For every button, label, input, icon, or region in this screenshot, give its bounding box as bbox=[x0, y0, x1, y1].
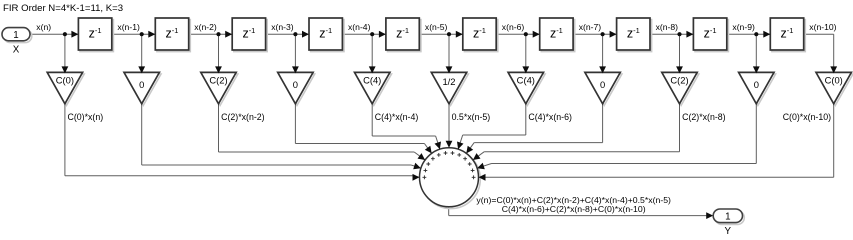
svg-text:C(0)*x(n-10): C(0)*x(n-10) bbox=[783, 112, 831, 122]
svg-text:C(2): C(2) bbox=[670, 75, 688, 86]
svg-text:x(n-4): x(n-4) bbox=[348, 22, 371, 32]
svg-text:x(n-6): x(n-6) bbox=[502, 22, 525, 32]
svg-text:C(4)*x(n-4): C(4)*x(n-4) bbox=[375, 112, 419, 122]
svg-text:1/2: 1/2 bbox=[442, 76, 455, 87]
svg-text:X: X bbox=[13, 45, 20, 56]
svg-text:x(n): x(n) bbox=[36, 22, 51, 32]
svg-text:1: 1 bbox=[725, 212, 730, 223]
svg-text:C(2)*x(n-2): C(2)*x(n-2) bbox=[221, 112, 265, 122]
svg-text:0.5*x(n-5): 0.5*x(n-5) bbox=[452, 112, 491, 122]
svg-text:1: 1 bbox=[13, 30, 18, 41]
svg-text:x(n-1): x(n-1) bbox=[117, 22, 140, 32]
svg-text:x(n-8): x(n-8) bbox=[656, 22, 679, 32]
svg-text:Y: Y bbox=[725, 226, 732, 237]
svg-text:C(4)*x(n-6): C(4)*x(n-6) bbox=[528, 112, 572, 122]
svg-text:C(0): C(0) bbox=[825, 75, 843, 86]
svg-text:x(n-3): x(n-3) bbox=[271, 22, 294, 32]
svg-text:0: 0 bbox=[139, 79, 144, 90]
svg-text:x(n-5): x(n-5) bbox=[425, 22, 448, 32]
svg-text:0: 0 bbox=[600, 79, 605, 90]
svg-text:x(n-7): x(n-7) bbox=[579, 22, 602, 32]
svg-text:C(4): C(4) bbox=[517, 75, 535, 86]
svg-text:FIR Order N=4*K-1=11, K=3: FIR Order N=4*K-1=11, K=3 bbox=[3, 3, 123, 14]
svg-text:C(4)*x(n-6)+C(2)*x(n-8)+C(0)*x: C(4)*x(n-6)+C(2)*x(n-8)+C(0)*x(n-10) bbox=[502, 204, 646, 214]
svg-text:0: 0 bbox=[293, 79, 298, 90]
svg-text:C(2)*x(n-8): C(2)*x(n-8) bbox=[682, 112, 726, 122]
svg-text:x(n-9): x(n-9) bbox=[732, 22, 755, 32]
svg-text:x(n-10): x(n-10) bbox=[809, 22, 836, 32]
svg-text:x(n-2): x(n-2) bbox=[194, 22, 217, 32]
svg-text:C(2): C(2) bbox=[209, 75, 227, 86]
svg-text:0: 0 bbox=[754, 79, 759, 90]
svg-text:C(4): C(4) bbox=[363, 75, 381, 86]
svg-text:C(0): C(0) bbox=[56, 75, 74, 86]
svg-text:C(0)*x(n): C(0)*x(n) bbox=[68, 112, 104, 122]
